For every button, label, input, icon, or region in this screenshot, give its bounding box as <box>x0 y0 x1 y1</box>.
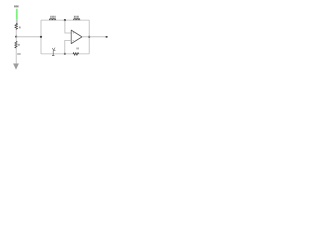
wire + input from node C <box>65 20 71 33</box>
plus sign <box>73 32 74 33</box>
op-amp U1 <box>71 30 82 43</box>
label L1 <box>18 44 20 46</box>
inductor L3 (series) <box>74 19 80 21</box>
output terminal pin <box>105 36 107 38</box>
inductor L2 (series) <box>50 19 56 21</box>
inductor L1 (shunt) <box>15 41 17 48</box>
node A junction dot <box>15 36 17 38</box>
resistor R1 <box>15 23 18 29</box>
ground (arrow) <box>13 64 19 70</box>
voltage source V1 wire (highlighted green) <box>16 9 18 20</box>
minus sign <box>73 39 74 41</box>
resistor R2 feedback <box>73 53 79 56</box>
ground stub of C1 <box>52 51 54 56</box>
label V1 source text <box>14 5 19 7</box>
label R1 value <box>19 26 21 28</box>
node E output junction dot <box>88 36 90 38</box>
label R2 value <box>77 47 79 49</box>
source lead (gray bar) <box>16 19 18 23</box>
label L3 value <box>74 16 79 18</box>
node B vertical wire <box>40 20 42 54</box>
wire feedback vertical <box>88 20 90 54</box>
node B junction dot <box>40 36 42 38</box>
wire top rail <box>41 19 89 21</box>
wire node A to node B <box>16 36 41 38</box>
node D junction dot <box>64 53 66 55</box>
wire node A down to L1 <box>15 37 17 41</box>
wire R1 to node A <box>15 30 17 37</box>
label L2 value <box>50 16 55 18</box>
wire - input <box>65 40 71 54</box>
wire output <box>82 36 107 38</box>
wire bottom rail <box>41 53 89 55</box>
node C junction dot <box>64 19 66 21</box>
label L1 value <box>17 53 20 55</box>
capacitor C1 marks <box>52 48 54 50</box>
wire L1 to ground <box>15 48 17 64</box>
